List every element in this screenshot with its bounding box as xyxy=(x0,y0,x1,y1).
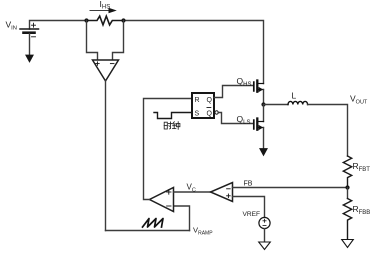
svg-text:VIN: VIN xyxy=(6,20,17,32)
svg-text:FB: FB xyxy=(244,181,253,188)
transistor QLS xyxy=(254,119,264,131)
wire VREF source to ground xyxy=(264,229,266,242)
current arrow IHS xyxy=(90,8,117,14)
wire battery negative down xyxy=(29,34,31,55)
error amplifier U3 xyxy=(211,183,233,202)
svg-text:L: L xyxy=(292,91,297,101)
ground arrow below battery xyxy=(26,55,34,62)
svg-text:VOUT: VOUT xyxy=(350,94,368,106)
svg-text:S: S xyxy=(195,111,200,118)
wire inductor to VOUT corner down to RFBT xyxy=(308,105,348,157)
node left sense dot xyxy=(84,18,88,22)
svg-text:VREF: VREF xyxy=(243,211,261,218)
svg-text:IHS: IHS xyxy=(100,0,111,11)
op-amp U1 current sense amplifier xyxy=(93,60,119,81)
resistor RFBT xyxy=(343,156,351,188)
svg-text:Q: Q xyxy=(207,97,213,104)
wire left sense dot to amp plus input xyxy=(87,21,98,61)
svg-text:VRAMP: VRAMP xyxy=(193,226,213,237)
wire right sense dot to amp minus input xyxy=(113,21,124,61)
wire switch node to LS drain xyxy=(263,105,265,122)
wire top rail from battery to left sense node xyxy=(30,21,87,30)
resistor RFBB xyxy=(343,199,351,240)
wire bottom ramp rail xyxy=(106,230,190,232)
wire switch node to inductor xyxy=(264,104,289,106)
node FB dot xyxy=(345,185,349,189)
wire HS source to switch node xyxy=(263,90,265,105)
wire LS source down xyxy=(263,128,265,149)
wire sense amp output down left side xyxy=(105,81,107,231)
ground open triangle under RFBB xyxy=(342,240,354,248)
node right sense dot xyxy=(121,18,125,22)
battery VIN xyxy=(20,23,39,37)
wire top rail from right sense node to HS drain drop xyxy=(124,21,264,84)
node switch dot xyxy=(261,102,265,106)
wire comparator output up to latch R input xyxy=(144,99,193,200)
resistor RSENSE zigzag xyxy=(87,16,124,25)
wire VC from error amp to comparator plus input xyxy=(174,191,211,193)
ground open triangle under VREF xyxy=(259,242,271,250)
svg-text:RFBB: RFBB xyxy=(353,204,371,216)
svg-text:Q: Q xyxy=(207,111,213,118)
latch Qbar bubble xyxy=(215,111,218,114)
svg-text:RFBT: RFBT xyxy=(353,161,371,173)
wire latch Q output to HS gate xyxy=(214,86,253,98)
inductor L xyxy=(288,101,308,104)
ramp sawtooth symbol xyxy=(143,219,164,228)
wire latch Qbar output to LS gate xyxy=(218,113,253,124)
comparator U2 PWM xyxy=(150,188,174,212)
voltage source VREF xyxy=(259,217,270,228)
wire error amp plus input to VREF source xyxy=(233,197,265,218)
wire FB from divider to error amp minus input xyxy=(233,187,348,189)
wire FB node down to RFBB xyxy=(347,188,349,199)
label clock 时钟 drawn as strokes xyxy=(164,122,180,130)
wire ramp rail up to comparator minus input xyxy=(174,206,190,231)
svg-text:R: R xyxy=(195,97,200,104)
SR latch U4 xyxy=(192,93,214,118)
ground arrow under LS xyxy=(260,149,268,156)
transistor QHS xyxy=(254,81,264,93)
clock pulse waveform xyxy=(154,113,192,119)
